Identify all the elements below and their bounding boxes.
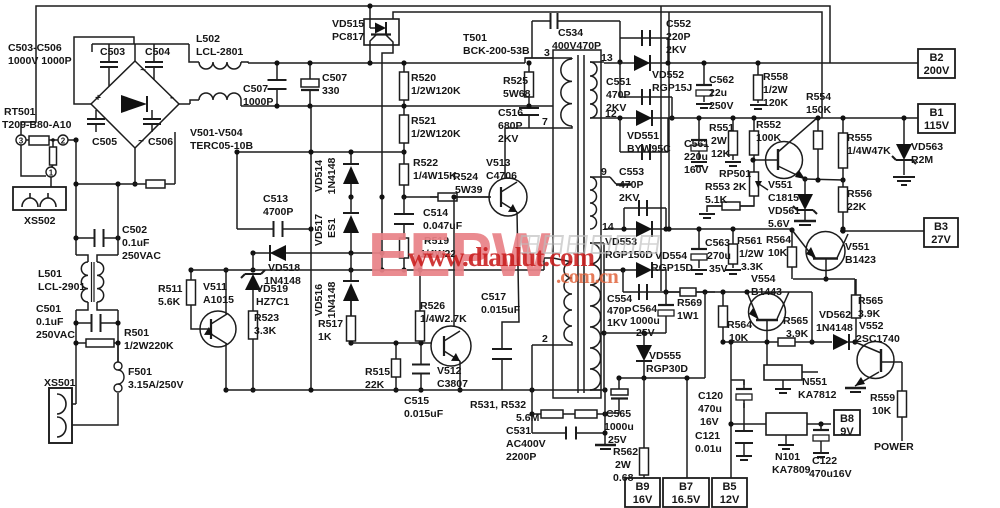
svg-text:220u: 220u (684, 151, 708, 163)
svg-text:C507: C507 (322, 72, 347, 84)
svg-text:10K: 10K (872, 405, 892, 417)
svg-text:RP501: RP501 (719, 168, 751, 180)
svg-text:3: 3 (19, 137, 24, 146)
svg-text:5W39: 5W39 (455, 184, 483, 196)
svg-text:2SC1740: 2SC1740 (856, 333, 900, 345)
svg-text:R555: R555 (847, 132, 872, 144)
svg-text:C503: C503 (100, 46, 125, 58)
svg-text:C121: C121 (695, 430, 720, 442)
svg-text:16V: 16V (700, 416, 719, 428)
svg-text:150K: 150K (806, 104, 832, 116)
svg-text:C122: C122 (812, 455, 837, 467)
svg-text:C501: C501 (36, 303, 61, 315)
svg-text:16V: 16V (633, 494, 653, 506)
svg-text:R559: R559 (870, 392, 895, 404)
svg-text:R501: R501 (124, 327, 149, 339)
svg-text:250VAC: 250VAC (36, 329, 75, 341)
svg-text:R569: R569 (677, 297, 702, 309)
svg-text:1000u: 1000u (630, 315, 660, 327)
svg-text:1/2W: 1/2W (763, 84, 788, 96)
svg-text:C505: C505 (92, 136, 117, 148)
svg-text:R565: R565 (783, 315, 808, 327)
svg-text:B2: B2 (929, 52, 943, 64)
svg-text:100K: 100K (756, 132, 782, 144)
svg-text:L502: L502 (196, 33, 220, 45)
svg-text:1/2W: 1/2W (739, 248, 764, 260)
svg-text:2200P: 2200P (506, 451, 536, 463)
svg-text:RT501: RT501 (4, 106, 36, 118)
svg-text:C564: C564 (632, 303, 657, 315)
svg-text:22K: 22K (847, 201, 867, 213)
svg-text:3.9K: 3.9K (858, 308, 881, 320)
svg-text:1N4148: 1N4148 (326, 281, 338, 318)
svg-text:0.1uF: 0.1uF (36, 316, 64, 328)
svg-text:VD555: VD555 (649, 350, 681, 362)
svg-text:C553: C553 (619, 166, 644, 178)
svg-text:R565: R565 (858, 295, 883, 307)
svg-text:C507: C507 (243, 83, 268, 95)
svg-text:12V: 12V (720, 494, 740, 506)
svg-text:13: 13 (601, 52, 613, 64)
svg-text:HZ7C1: HZ7C1 (256, 296, 289, 308)
svg-text:B7: B7 (679, 481, 693, 493)
svg-text:22u: 22u (709, 87, 727, 99)
svg-text:250V: 250V (709, 100, 734, 112)
svg-text:C3807: C3807 (437, 378, 468, 390)
svg-text:R552: R552 (756, 119, 781, 131)
svg-text:VD563: VD563 (911, 141, 943, 153)
svg-text:V551: V551 (845, 241, 870, 253)
svg-text:XS501: XS501 (44, 377, 76, 389)
svg-text:C552: C552 (666, 18, 691, 30)
svg-text:KA7812: KA7812 (798, 389, 837, 401)
svg-text:R558: R558 (763, 71, 788, 83)
svg-text:160V: 160V (684, 164, 709, 176)
svg-text:C565: C565 (606, 408, 631, 420)
svg-text:N101: N101 (775, 451, 800, 463)
svg-text:2KV: 2KV (619, 192, 639, 204)
svg-text:470u16V: 470u16V (809, 468, 852, 480)
svg-text:470P: 470P (607, 305, 632, 317)
svg-text:35V: 35V (709, 263, 728, 275)
svg-text:16.5V: 16.5V (672, 494, 701, 506)
svg-text:R556: R556 (847, 188, 872, 200)
svg-text:C503-C506: C503-C506 (8, 42, 62, 54)
svg-text:1/2W120K: 1/2W120K (411, 128, 461, 140)
svg-text:-: - (170, 90, 174, 104)
svg-text:0.68: 0.68 (613, 472, 634, 484)
svg-text:B9: B9 (635, 481, 649, 493)
svg-text:1000u: 1000u (604, 421, 634, 433)
svg-text:B1: B1 (929, 107, 943, 119)
svg-text:R517: R517 (318, 318, 343, 330)
svg-text:C502: C502 (122, 224, 147, 236)
svg-text:R531, R532: R531, R532 (470, 399, 526, 411)
svg-text:POWER: POWER (874, 441, 914, 453)
svg-text:1: 1 (49, 169, 54, 178)
svg-text:0.1uF: 0.1uF (122, 237, 150, 249)
svg-text:1/4W15K: 1/4W15K (413, 170, 457, 182)
svg-text:B3: B3 (934, 221, 948, 233)
svg-text:1/2W220K: 1/2W220K (124, 340, 174, 352)
svg-text:1K: 1K (318, 331, 332, 343)
svg-text:2W: 2W (711, 135, 727, 147)
svg-text:R520: R520 (411, 72, 436, 84)
svg-text:B5: B5 (722, 481, 736, 493)
svg-text:C551: C551 (606, 76, 631, 88)
svg-text:T501: T501 (463, 32, 487, 44)
svg-text:PC817: PC817 (332, 31, 364, 43)
svg-text:1/2W120K: 1/2W120K (411, 85, 461, 97)
svg-text:RGP30D: RGP30D (646, 363, 688, 375)
svg-text:400V470P: 400V470P (552, 40, 601, 52)
svg-text:R551: R551 (709, 122, 734, 134)
svg-text:LCL-2901: LCL-2901 (38, 281, 85, 293)
svg-text:2: 2 (542, 333, 548, 345)
svg-text:R564: R564 (727, 319, 752, 331)
svg-text:12: 12 (605, 108, 617, 120)
svg-text:22K: 22K (365, 379, 385, 391)
svg-text:0.015uF: 0.015uF (404, 408, 444, 420)
svg-text:+: + (95, 93, 101, 104)
svg-text:XS502: XS502 (24, 215, 56, 227)
svg-text:7: 7 (542, 116, 548, 128)
svg-text:R562: R562 (613, 446, 638, 458)
svg-text:ES1: ES1 (326, 218, 338, 238)
svg-text:LCL-2801: LCL-2801 (196, 46, 243, 58)
svg-text:680P: 680P (498, 120, 523, 132)
svg-text:220P: 220P (666, 31, 691, 43)
svg-text:B8: B8 (840, 413, 854, 425)
svg-text:0.015uF: 0.015uF (481, 304, 521, 316)
svg-text:1N4148: 1N4148 (816, 322, 853, 334)
svg-text:R561: R561 (737, 235, 762, 247)
svg-text:V501-V504: V501-V504 (190, 127, 243, 139)
svg-text:1/4W2.7K: 1/4W2.7K (420, 313, 467, 325)
svg-text:VD561: VD561 (768, 205, 800, 217)
svg-text:5W68: 5W68 (503, 88, 531, 100)
svg-text:VD516: VD516 (313, 284, 325, 316)
svg-text:V552: V552 (859, 320, 884, 332)
svg-text:C120: C120 (698, 390, 723, 402)
svg-text:C515: C515 (404, 395, 429, 407)
svg-text:C563: C563 (705, 237, 730, 249)
svg-text:A1015: A1015 (203, 294, 234, 306)
svg-text:R526: R526 (420, 300, 445, 312)
svg-text:270u: 270u (707, 250, 731, 262)
svg-text:4700P: 4700P (263, 206, 293, 218)
svg-text:120K: 120K (763, 97, 789, 109)
svg-text:V511: V511 (203, 281, 227, 293)
svg-text:VD552: VD552 (652, 69, 684, 81)
svg-text:R564: R564 (766, 234, 791, 246)
svg-text:1000V 1000P: 1000V 1000P (8, 55, 72, 67)
svg-text:25V: 25V (636, 327, 655, 339)
svg-text:RGP15J: RGP15J (652, 82, 692, 94)
svg-text:C562: C562 (709, 74, 734, 86)
svg-text:R525: R525 (503, 75, 528, 87)
svg-text:470P: 470P (606, 89, 631, 101)
svg-text:R515: R515 (365, 366, 390, 378)
svg-text:L501: L501 (38, 268, 62, 280)
svg-text:5.6V: 5.6V (768, 218, 790, 230)
svg-text:VD551: VD551 (627, 130, 659, 142)
svg-text:V551: V551 (768, 179, 793, 191)
svg-text:VD554: VD554 (655, 250, 687, 262)
svg-text:R522: R522 (413, 157, 438, 169)
svg-text:3.3K: 3.3K (254, 325, 277, 337)
svg-text:BYW95C: BYW95C (627, 143, 671, 155)
svg-text:C531: C531 (506, 425, 531, 437)
svg-text:9: 9 (601, 166, 607, 178)
svg-text:R2M: R2M (911, 154, 933, 166)
svg-text:C561: C561 (684, 138, 709, 150)
svg-text:115V: 115V (924, 120, 950, 132)
svg-text:BCK-200-53B: BCK-200-53B (463, 45, 530, 57)
svg-text:27V: 27V (931, 234, 951, 246)
svg-text:C504: C504 (145, 46, 170, 58)
svg-text:5.1K: 5.1K (705, 194, 728, 206)
svg-text:2KV: 2KV (498, 133, 518, 145)
svg-text:1/4W47K: 1/4W47K (847, 145, 891, 157)
svg-text:R523: R523 (254, 312, 279, 324)
svg-text:C506: C506 (148, 136, 173, 148)
svg-text:5.6K: 5.6K (158, 296, 181, 308)
svg-text:1W1: 1W1 (677, 310, 699, 322)
svg-text:VD562: VD562 (819, 309, 851, 321)
svg-text:C4706: C4706 (486, 170, 517, 182)
svg-text:AC400V: AC400V (506, 438, 546, 450)
svg-text:3.3K: 3.3K (741, 261, 764, 273)
svg-text:F501: F501 (128, 366, 152, 378)
svg-text:C516: C516 (498, 107, 523, 119)
svg-text:R521: R521 (411, 115, 436, 127)
svg-text:V512: V512 (437, 365, 462, 377)
svg-text:VD515: VD515 (332, 18, 364, 30)
svg-text:TERC05-10B: TERC05-10B (190, 140, 253, 152)
svg-text:1N4148: 1N4148 (326, 157, 338, 194)
svg-text:5.6M: 5.6M (516, 412, 540, 424)
svg-text:2: 2 (61, 137, 66, 146)
svg-text:C513: C513 (263, 193, 288, 205)
svg-text:VD517: VD517 (313, 214, 325, 246)
svg-text:B1423: B1423 (845, 254, 876, 266)
svg-text:C534: C534 (558, 27, 583, 39)
svg-text:~: ~ (138, 136, 144, 147)
svg-text:R554: R554 (806, 91, 831, 103)
svg-text:RGP15D: RGP15D (651, 262, 693, 274)
svg-text:12K: 12K (711, 148, 731, 160)
svg-text:1KV: 1KV (607, 317, 627, 329)
svg-text:3.9K: 3.9K (786, 328, 809, 340)
svg-text:N551: N551 (802, 376, 827, 388)
svg-text:VD514: VD514 (313, 160, 325, 192)
svg-text:R511: R511 (158, 283, 183, 295)
svg-text:V513: V513 (486, 157, 511, 169)
svg-text:C554: C554 (607, 293, 632, 305)
svg-text:VD518: VD518 (268, 262, 300, 274)
svg-text:V554: V554 (751, 273, 776, 285)
svg-text:C517: C517 (481, 291, 506, 303)
svg-text:3.15A/250V: 3.15A/250V (128, 379, 183, 391)
svg-text:470P: 470P (619, 179, 644, 191)
svg-text:9V: 9V (840, 426, 854, 438)
svg-text:200V: 200V (924, 65, 950, 77)
svg-text:C1815: C1815 (768, 192, 799, 204)
svg-text:.com.cn: .com.cn (556, 264, 619, 288)
svg-text:2KV: 2KV (666, 44, 686, 56)
svg-text:VD519: VD519 (256, 283, 288, 295)
svg-text:C514: C514 (423, 207, 448, 219)
svg-text:1000P: 1000P (243, 96, 273, 108)
svg-text:10K: 10K (768, 247, 788, 259)
svg-text:R524: R524 (453, 171, 478, 183)
svg-text:14: 14 (602, 221, 614, 233)
svg-text:T209-B80-A10: T209-B80-A10 (2, 119, 72, 131)
svg-text:470u: 470u (698, 403, 722, 415)
svg-text:3: 3 (544, 47, 550, 59)
svg-text:2W: 2W (615, 459, 631, 471)
svg-text:250VAC: 250VAC (122, 250, 161, 262)
svg-text:25V: 25V (608, 434, 627, 446)
svg-text:B1443: B1443 (751, 286, 782, 298)
svg-text:RGP150D: RGP150D (605, 249, 653, 261)
svg-text:KA7809: KA7809 (772, 464, 811, 476)
svg-text:330: 330 (322, 85, 340, 97)
svg-text:0.01u: 0.01u (695, 443, 722, 455)
svg-text:10K: 10K (729, 332, 749, 344)
svg-text:R553 2K: R553 2K (705, 181, 747, 193)
